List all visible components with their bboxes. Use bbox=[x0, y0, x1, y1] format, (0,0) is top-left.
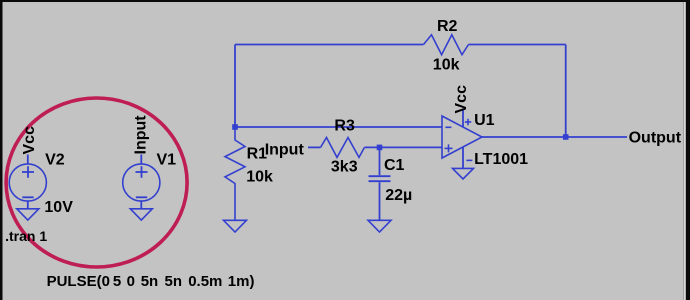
ground of U1 bbox=[453, 168, 474, 179]
svg-text:10V: 10V bbox=[44, 199, 73, 216]
svg-text:Output: Output bbox=[629, 129, 682, 146]
svg-text:22µ: 22µ bbox=[385, 187, 412, 204]
voltage source V1 bbox=[123, 155, 160, 209]
svg-text:Input: Input bbox=[133, 115, 150, 155]
svg-text:Vcc: Vcc bbox=[453, 85, 470, 114]
svg-text:C1: C1 bbox=[384, 157, 405, 174]
svg-text:10k: 10k bbox=[246, 168, 273, 185]
wire feedback vertical left bbox=[234, 45, 236, 128]
resistor R2 bbox=[424, 35, 469, 55]
svg-text:Input: Input bbox=[265, 142, 305, 159]
capacitor C1 bbox=[369, 147, 391, 220]
wire feedback top right segment bbox=[469, 44, 566, 46]
svg-text:.tran 1: .tran 1 bbox=[5, 228, 47, 244]
svg-text:U1: U1 bbox=[474, 112, 495, 129]
voltage source V2 bbox=[9, 155, 46, 209]
junction node A (R1/R2 feedback) bbox=[232, 124, 238, 130]
junction node B (R3/C1) bbox=[377, 145, 383, 151]
svg-text:V1: V1 bbox=[157, 151, 177, 168]
op-amp U1 bbox=[442, 108, 482, 168]
svg-text:R2: R2 bbox=[437, 18, 458, 35]
wire R3 to noninverting input bbox=[365, 146, 443, 148]
wire output bbox=[482, 136, 627, 138]
resistor R1 bbox=[225, 127, 245, 220]
wire inverting input bbox=[235, 126, 442, 128]
svg-text:LT1001: LT1001 bbox=[474, 151, 528, 168]
junction node output bbox=[563, 134, 569, 140]
svg-text:R3: R3 bbox=[334, 117, 355, 134]
wire feedback vertical right bbox=[565, 45, 567, 138]
svg-text:Vcc: Vcc bbox=[21, 126, 38, 155]
svg-text:3k3: 3k3 bbox=[331, 158, 358, 175]
ground of V2 bbox=[17, 209, 39, 220]
ground of R1 bbox=[224, 220, 247, 232]
svg-text:10k: 10k bbox=[433, 57, 460, 74]
wire feedback top left segment bbox=[235, 44, 424, 46]
annotation ellipse bbox=[6, 98, 187, 267]
resistor R3 bbox=[321, 138, 365, 158]
ground of C1 bbox=[368, 220, 391, 232]
ground of V1 bbox=[130, 209, 152, 220]
wire Input label to R3 bbox=[308, 146, 321, 148]
svg-text:V2: V2 bbox=[45, 151, 65, 168]
